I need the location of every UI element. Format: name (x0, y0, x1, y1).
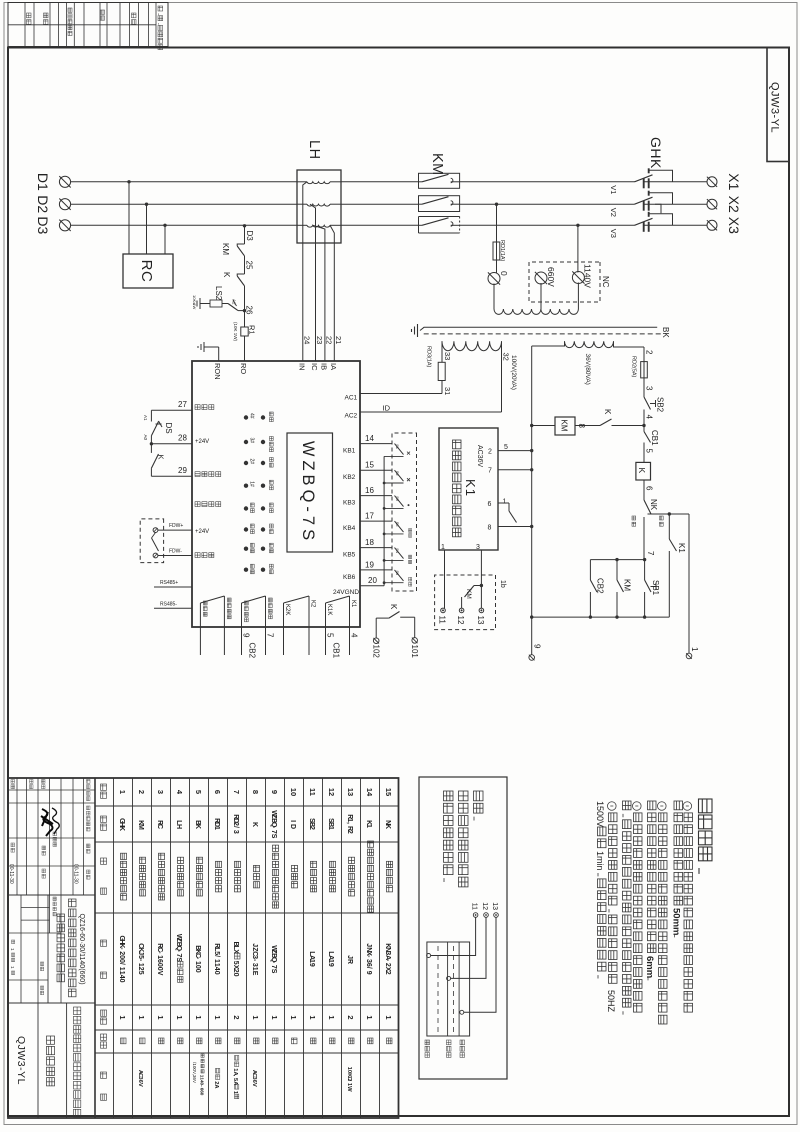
svg-text:K: K (222, 272, 231, 278)
breaker contact CB2 (589, 560, 591, 580)
svg-text:S: S (175, 957, 182, 962)
water level labels (460, 1040, 465, 1057)
branch D3 wire (243, 224, 246, 227)
svg-text:1: 1 (194, 1015, 203, 1019)
FDW terminals and contact (153, 528, 158, 533)
output contact group 4 (325, 603, 327, 655)
svg-text:H: H (175, 824, 182, 829)
svg-text:10K 1W: 10K 1W (192, 295, 197, 309)
svg-text:27: 27 (178, 400, 187, 409)
K1 pin 2 wire (498, 450, 532, 452)
svg-text:1: 1 (156, 1015, 165, 1019)
GHK pole 1 blade (635, 175, 653, 182)
svg-text:D2: D2 (35, 195, 51, 213)
terminal 1 (686, 653, 692, 659)
svg-text:50mm: 50mm (671, 908, 682, 935)
svg-text:M: M (137, 824, 144, 830)
contactor coil KM branch (612, 425, 645, 427)
svg-text:K: K (389, 604, 398, 610)
svg-text:12: 12 (456, 616, 465, 625)
svg-text:LH: LH (306, 140, 322, 160)
svg-text:1: 1 (365, 1015, 374, 1019)
svg-text:NK: NK (649, 499, 658, 511)
tech req line 6 (623, 801, 632, 1015)
bus D3 vertical wire (678, 224, 707, 226)
svg-text:00-11-30: 00-11-30 (73, 864, 79, 884)
svg-text:S5: S5 (395, 522, 400, 528)
svg-text:1: 1 (118, 1015, 127, 1019)
terminal D1 (59, 176, 70, 187)
CT winding on phase 2 (330, 203, 341, 205)
svg-text:S: S (270, 969, 277, 974)
svg-text:5: 5 (326, 633, 335, 638)
svg-text:W: W (346, 1086, 352, 1092)
signature rows labels (42, 780, 46, 789)
terminal X1 (707, 177, 717, 187)
bus D1 wire below LH (71, 181, 298, 183)
svg-text:3: 3 (156, 790, 165, 794)
relay contact K1 wire (668, 512, 671, 515)
lamp branch LS2 (238, 310, 245, 312)
svg-text:50HZ: 50HZ (606, 990, 616, 1013)
svg-text:X3: X3 (726, 217, 742, 234)
pin KB1 wire (360, 443, 392, 445)
svg-text:AC2: AC2 (345, 413, 358, 420)
svg-text:X2: X2 (726, 196, 742, 213)
controller WZBQ-7S box (192, 361, 360, 627)
RC absorber branch wires (127, 180, 130, 183)
svg-text:KB4: KB4 (343, 525, 356, 532)
GHK pole 1 link (649, 170, 673, 182)
bus D3 wire below KM (341, 224, 419, 226)
svg-text:IN: IN (298, 363, 307, 371)
svg-text:1140V: 1140V (583, 264, 593, 288)
title block signature zone grid (83, 778, 85, 895)
contact K between 28 and 29 (150, 444, 152, 453)
svg-text:1: 1 (503, 499, 507, 506)
breaker contact CB1 (643, 428, 645, 432)
svg-text:7: 7 (232, 790, 241, 794)
svg-text:X: X (232, 949, 239, 954)
svg-text:11: 11 (308, 788, 317, 796)
svg-text:S4: S4 (395, 548, 400, 554)
secondary winding 36V (565, 341, 614, 347)
WZBQ-7S inner box (287, 433, 333, 552)
tech req line 7 (608, 802, 617, 811)
svg-text:7: 7 (488, 468, 492, 475)
svg-text:D3: D3 (35, 216, 51, 234)
svg-text:4#: 4# (249, 413, 255, 419)
tech req line 5 (633, 802, 642, 811)
svg-text:RD1(1A): RD1(1A) (499, 240, 505, 262)
svg-text:+24V: +24V (195, 439, 209, 445)
svg-text:24VGND: 24VGND (333, 589, 359, 596)
svg-text:(10K 1W): (10K 1W) (233, 322, 238, 342)
svg-text:6mm: 6mm (644, 956, 655, 978)
contact K in branch (237, 274, 244, 276)
wire D3 to 1140V tap (576, 224, 579, 227)
terminal X2 (707, 199, 717, 209)
tech req line 4 (648, 801, 657, 953)
svg-text:FDW-: FDW- (169, 549, 182, 555)
lamp branch end symbol (199, 298, 201, 309)
terminal 13 (479, 608, 484, 613)
svg-text:9: 9 (327, 963, 334, 967)
svg-text:A1: A1 (143, 415, 148, 421)
svg-text:1: 1 (327, 826, 334, 830)
RON ground branch (218, 347, 220, 361)
bus D2 wire below LH (71, 203, 298, 205)
svg-text:/100V,36V: /100V,36V (192, 1062, 197, 1084)
svg-text:S6: S6 (395, 570, 400, 576)
svg-text:0: 0 (213, 971, 220, 975)
svg-text:1: 1 (9, 948, 15, 951)
36V winding lower lead (532, 341, 565, 346)
svg-text:KM: KM (560, 420, 569, 432)
contactor aux contact KM (615, 558, 618, 561)
parts table header (101, 784, 107, 798)
wire 33 / fuse RD3 to AC1 (441, 341, 443, 362)
svg-text:15: 15 (365, 461, 374, 470)
tap wires to primary winding (493, 284, 495, 310)
svg-text:2: 2 (488, 449, 492, 456)
terminal block 1b dashed box (435, 575, 496, 630)
pin KB3 wire (360, 495, 392, 497)
tap terminal 0 (488, 273, 500, 285)
tech req line 2 (674, 801, 683, 905)
svg-text:AC1: AC1 (345, 395, 358, 402)
CT winding on phase 1 (330, 181, 341, 183)
svg-text:R: R (346, 959, 353, 964)
svg-text:K: K (157, 455, 166, 460)
svg-text:9: 9 (533, 644, 542, 649)
signature zone header labels (87, 780, 91, 789)
svg-text:24: 24 (303, 336, 312, 344)
svg-text:33: 33 (443, 352, 452, 360)
svg-text:2: 2 (346, 830, 353, 834)
svg-text:V3: V3 (609, 229, 618, 238)
svg-text:S1: S1 (395, 444, 400, 450)
GHK pole 3 contact jaws (648, 222, 650, 232)
GHK pole 2 contact jaws (648, 201, 650, 211)
current transformer LH box (297, 170, 341, 243)
svg-text:K: K (637, 468, 647, 474)
svg-text:S: S (270, 834, 277, 839)
svg-text:1#: 1# (249, 481, 255, 487)
return bus wire (532, 616, 670, 618)
svg-text:2: 2 (137, 790, 146, 794)
svg-text:18: 18 (365, 538, 374, 547)
electrode wires (431, 917, 476, 955)
terminal 12 (459, 608, 464, 613)
note terminal 12 (484, 913, 489, 918)
svg-text:14: 14 (365, 788, 374, 797)
svg-text:11: 11 (471, 903, 478, 910)
svg-text:V1: V1 (609, 185, 618, 194)
CT secondary wire IA (330, 225, 334, 361)
terminal 102 wire (375, 618, 377, 638)
keypad common wire (383, 456, 385, 585)
svg-text:CB2: CB2 (248, 643, 257, 659)
left margin signature strip (8, 3, 168, 47)
svg-text:1min: 1min (595, 851, 605, 871)
svg-text:D3: D3 (245, 231, 254, 242)
svg-text:RC: RC (138, 260, 155, 283)
tap terminal 660V (535, 272, 547, 284)
svg-text:WZBQ-7S: WZBQ-7S (299, 441, 317, 544)
technical requirements title (699, 799, 713, 861)
bus D3 wire below GHK (460, 224, 635, 226)
svg-text:QJW3-YL: QJW3-YL (769, 82, 781, 133)
KM main contact pole 2 (419, 196, 460, 212)
CT secondary wire IN (303, 182, 307, 361)
svg-text:K1: K1 (463, 479, 478, 497)
terminal 101 wire (414, 617, 416, 638)
svg-text:SB2: SB2 (656, 397, 665, 413)
note text (474, 791, 484, 821)
svg-text:21: 21 (334, 336, 343, 344)
tech req line 1 (683, 802, 692, 811)
svg-text:E: E (251, 971, 258, 976)
K1 aux contact 6-8 (508, 503, 510, 511)
svg-text:101: 101 (410, 645, 419, 659)
pin KB5 wire (360, 547, 392, 549)
pin 29 wire (151, 475, 192, 477)
resistor R2 in lamp branch (222, 303, 228, 305)
bus D3 wire below LH (71, 224, 298, 226)
svg-text:K: K (118, 826, 125, 831)
svg-text:R1: R1 (248, 325, 257, 335)
screen ground (417, 324, 419, 337)
svg-text:D: D (289, 824, 296, 829)
bus D1 wire below GHK (460, 181, 635, 183)
RS485+ wire (154, 586, 192, 588)
CT secondary wire IC (310, 204, 316, 361)
svg-text:I: I (289, 820, 296, 822)
svg-text:1: 1 (270, 1015, 279, 1019)
svg-text:KB6: KB6 (343, 574, 356, 581)
output contact group 3 (283, 603, 285, 655)
terminal 101 (412, 638, 418, 644)
svg-text:2: 2 (346, 1015, 355, 1019)
svg-text:RD3(1A): RD3(1A) (426, 346, 432, 368)
svg-text:2: 2 (645, 350, 654, 355)
svg-text:00-11-30: 00-11-30 (8, 864, 14, 884)
K1 pin 6 wire (498, 502, 509, 504)
svg-text:3: 3 (645, 386, 654, 391)
svg-text:1500V: 1500V (595, 801, 605, 827)
svg-text:K: K (194, 824, 201, 829)
contactor coil KM (555, 417, 575, 435)
svg-text:7: 7 (646, 551, 655, 556)
svg-text:IA: IA (329, 363, 338, 370)
drawing number box QJW3-YL (767, 48, 789, 162)
svg-text:1: 1 (365, 824, 372, 828)
svg-text:0: 0 (200, 1093, 205, 1096)
svg-text:1: 1 (251, 1015, 260, 1019)
36V winding upper lead (614, 341, 645, 347)
svg-text:15: 15 (384, 788, 393, 796)
keypad ID dashed box (392, 433, 417, 591)
svg-text:6: 6 (488, 501, 492, 508)
svg-text:22: 22 (325, 336, 334, 344)
wire 31 corner to AC1 (441, 381, 443, 394)
wire 4 (643, 410, 645, 429)
svg-text:RD2(5A): RD2(5A) (631, 356, 637, 378)
svg-text:36V(80VA): 36V(80VA) (584, 354, 591, 385)
svg-text:16: 16 (365, 486, 374, 495)
keypad button S5 (395, 521, 404, 532)
bus D2 vertical wire (678, 203, 707, 205)
svg-text:K2: K2 (310, 600, 316, 608)
svg-text:V2: V2 (609, 208, 618, 217)
pin KB6 wire (360, 569, 392, 571)
svg-text:1: 1 (690, 647, 699, 652)
wire 32 to AC2 (501, 341, 503, 412)
pin KB4 wire (360, 520, 392, 522)
svg-text:K: K (603, 409, 612, 415)
svg-text:KM: KM (429, 153, 445, 176)
svg-text:102: 102 (372, 645, 381, 659)
svg-text:RO: RO (239, 363, 248, 374)
keypad button S4 (395, 548, 404, 559)
node 26 (243, 309, 246, 312)
svg-text:2: 2 (308, 826, 315, 830)
svg-text:RS485+: RS485+ (160, 580, 178, 586)
margin strip labels (158, 6, 163, 50)
keypad button S1 (395, 444, 404, 455)
stage mark cells (37, 895, 39, 1003)
pin 24VGND wire (360, 585, 384, 587)
margin strip handwriting (52, 808, 59, 834)
note terminal 13 (494, 913, 499, 918)
bus D2 wire below GHK (460, 203, 635, 205)
FDW+ wire (158, 529, 192, 531)
svg-text:BK: BK (661, 327, 670, 338)
contact KM in branch (237, 244, 244, 246)
company / title cells (8, 1002, 95, 1004)
K1 pin 8 wire (498, 526, 532, 528)
svg-text:23: 23 (315, 336, 324, 344)
svg-text:0: 0 (232, 973, 239, 977)
note box (419, 777, 507, 1079)
svg-text:10: 10 (289, 788, 298, 796)
parts table grid (8, 778, 399, 1118)
KM main contact pole 1 (419, 173, 460, 188)
svg-text:1: 1 (118, 790, 127, 794)
fuse RD3 (438, 362, 445, 380)
node 7 (643, 558, 646, 561)
svg-text:1: 1 (327, 1015, 336, 1019)
svg-text:1: 1 (213, 1015, 222, 1019)
water level dashes (453, 946, 455, 1032)
GHK pole 1 terminal wire (644, 181, 679, 183)
indicator LEDs (261, 415, 265, 419)
svg-text:4: 4 (645, 415, 654, 420)
svg-text:20: 20 (368, 576, 377, 585)
fuse RD1 (493, 242, 500, 260)
svg-text:9: 9 (365, 971, 372, 975)
svg-text:17: 17 (365, 512, 374, 521)
svg-text:13: 13 (476, 616, 485, 625)
KM coil lower wire (532, 425, 555, 427)
svg-text:11: 11 (438, 616, 447, 625)
svg-text:0: 0 (194, 969, 201, 973)
svg-text:660V: 660V (546, 267, 556, 287)
svg-text:GHK: GHK (648, 137, 664, 169)
wire 5 (643, 449, 645, 462)
GHK pole 2 terminal wire (644, 203, 679, 205)
pushbutton SB2 (644, 397, 651, 410)
svg-text:8: 8 (251, 790, 260, 794)
svg-text:1: 1 (289, 1015, 298, 1019)
svg-text:7: 7 (266, 633, 275, 638)
svg-text:9: 9 (308, 963, 315, 967)
svg-text:KB5: KB5 (343, 552, 356, 559)
svg-text:KB2: KB2 (343, 474, 356, 481)
CT secondary wire IB (313, 225, 325, 361)
resistor R1 (241, 327, 248, 336)
transformer BK primary winding (494, 309, 578, 314)
svg-text:K1: K1 (350, 600, 356, 608)
pin 27 wire (151, 409, 192, 411)
svg-text:K: K (251, 822, 258, 827)
svg-text:DS: DS (164, 423, 173, 434)
svg-text:6: 6 (213, 790, 222, 794)
svg-text:13: 13 (491, 902, 498, 910)
svg-text:2: 2 (232, 1015, 241, 1019)
svg-text:KM: KM (221, 243, 230, 255)
svg-text:13: 13 (346, 788, 355, 796)
svg-text:5: 5 (194, 790, 203, 794)
svg-text:S2: S2 (395, 471, 400, 477)
svg-text:K: K (384, 824, 391, 829)
svg-text:,: , (346, 822, 353, 824)
tap terminal 1140V (572, 272, 584, 284)
terminal X3 (707, 220, 717, 230)
svg-text:IC: IC (310, 363, 319, 371)
keypad button S3 (395, 496, 404, 507)
output contact group 2 (241, 603, 243, 655)
GHK pole 3 terminal wire (644, 224, 679, 226)
wire 2 (643, 347, 645, 362)
svg-text:V: V (251, 1083, 257, 1087)
svg-text:+24V: +24V (195, 529, 209, 535)
svg-text:KB3: KB3 (343, 500, 356, 507)
svg-text:D1: D1 (35, 173, 51, 191)
svg-text:19: 19 (365, 560, 374, 569)
output contact group 1 (199, 603, 201, 655)
KM aux contact in 1b (480, 584, 483, 587)
svg-text:1: 1 (213, 826, 220, 830)
pin 28 wire (151, 443, 192, 445)
svg-text:3: 3 (476, 544, 480, 551)
GHK pole 1 contact jaws (648, 178, 650, 188)
CT winding on phase 3 (330, 224, 341, 226)
pin labels Chinese (195, 405, 214, 410)
KM main contact pole 3 (419, 216, 460, 218)
terminal 102 (373, 638, 379, 644)
svg-text:0: 0 (499, 271, 509, 276)
wire 6 (643, 480, 645, 500)
pin KB2 wire (360, 469, 392, 471)
svg-text:K1K: K1K (326, 604, 332, 615)
svg-text:K2K: K2K (284, 604, 290, 615)
svg-text:V: V (137, 1083, 143, 1087)
svg-text:X1: X1 (726, 173, 742, 190)
secondary winding 100V (442, 341, 502, 350)
svg-text:5: 5 (645, 449, 654, 454)
